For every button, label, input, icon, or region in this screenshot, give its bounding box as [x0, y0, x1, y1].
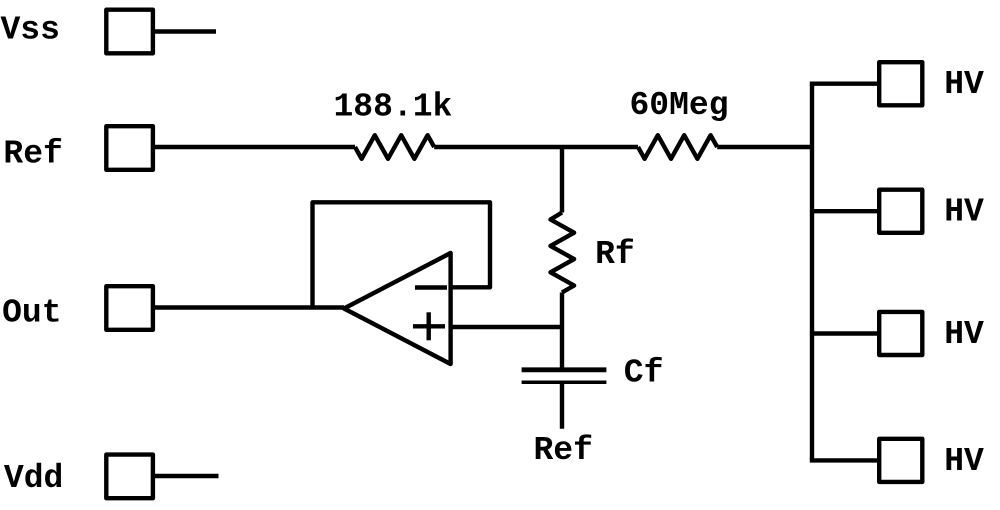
svg-text:Rf: Rf [595, 236, 635, 273]
svg-text:HV: HV [944, 66, 984, 103]
svg-text:Vss: Vss [1, 12, 60, 49]
svg-text:Cf: Cf [624, 355, 664, 392]
svg-text:188.1k: 188.1k [334, 88, 453, 125]
svg-text:Ref: Ref [534, 432, 593, 469]
svg-text:Out: Out [2, 295, 61, 332]
svg-text:HV: HV [944, 316, 984, 353]
svg-text:HV: HV [944, 443, 984, 480]
svg-text:60Meg: 60Meg [630, 87, 729, 124]
svg-text:Vdd: Vdd [4, 460, 63, 497]
svg-text:HV: HV [944, 194, 984, 231]
svg-text:Ref: Ref [3, 135, 62, 172]
